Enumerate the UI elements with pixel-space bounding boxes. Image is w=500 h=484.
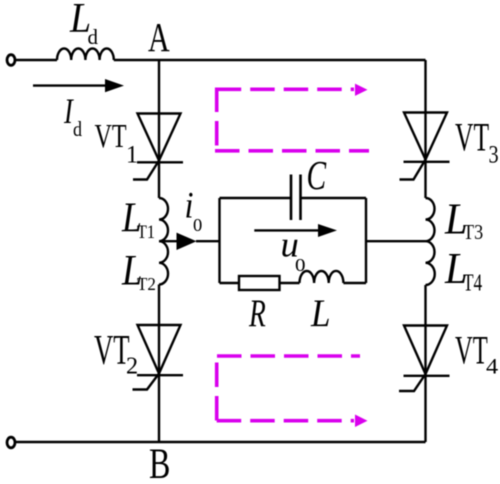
svg-text:0: 0 [295, 256, 306, 275]
svg-text:L: L [310, 292, 330, 335]
svg-text:B: B [149, 440, 170, 484]
svg-text:T2: T2 [137, 274, 156, 295]
svg-text:VT: VT [455, 116, 489, 160]
svg-text:4: 4 [486, 354, 499, 379]
svg-text:2: 2 [126, 354, 138, 380]
svg-text:T1: T1 [137, 221, 155, 243]
svg-text:3: 3 [489, 141, 499, 168]
svg-text:VT: VT [95, 118, 127, 155]
svg-text:T3: T3 [463, 221, 483, 245]
svg-text:C: C [307, 152, 328, 198]
svg-text:VT: VT [94, 326, 130, 374]
svg-text:T4: T4 [463, 269, 482, 297]
svg-text:d: d [88, 25, 99, 49]
svg-text:VT: VT [455, 328, 488, 373]
svg-text:d: d [73, 119, 82, 141]
svg-text:0: 0 [193, 215, 202, 235]
svg-text:1: 1 [126, 141, 138, 169]
svg-text:R: R [248, 292, 266, 335]
svg-text:A: A [148, 14, 170, 60]
